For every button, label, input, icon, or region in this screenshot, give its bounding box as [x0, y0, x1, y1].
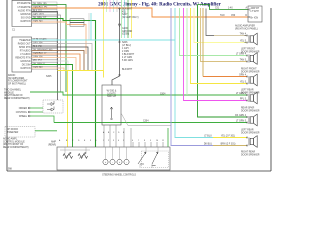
svg-text:DK GRN 4: DK GRN 4	[235, 115, 247, 117]
svg-text:WHEEL: WHEEL	[19, 116, 28, 118]
svg-text:LT REMOTE: LT REMOTE	[18, 7, 31, 9]
svg-text:BRN (2 F 301): BRN (2 F 301)	[221, 144, 236, 146]
svg-text:(RIGHT REAR OF: (RIGHT REAR OF	[4, 94, 23, 97]
svg-text:DIC DIM: DIC DIM	[22, 64, 31, 66]
svg-text:RT REMOTE: RT REMOTE	[17, 3, 31, 5]
svg-text:RH DOOR: RH DOOR	[7, 129, 18, 131]
svg-text:BLK/WHT: BLK/WHT	[122, 69, 133, 71]
svg-text:LEFT FRONT: LEFT FRONT	[241, 49, 256, 51]
svg-text:RADIO OUT: RADIO OUT	[18, 42, 31, 45]
svg-text:C50: C50	[231, 15, 236, 17]
svg-text:8: 8	[144, 140, 145, 142]
svg-text:PPL 5: PPL 5	[240, 99, 247, 101]
svg-text:LT BLU: LT BLU	[204, 136, 212, 138]
svg-text:(RIGHT FRONT OF: (RIGHT FRONT OF	[3, 144, 24, 146]
svg-text:GROUND: GROUND	[20, 61, 31, 63]
svg-text:DK BLU: DK BLU	[204, 144, 213, 146]
svg-text:AUDIO RTN: AUDIO RTN	[18, 9, 31, 12]
svg-text:6: 6	[132, 140, 133, 142]
svg-text:ORN 4: ORN 4	[239, 75, 247, 77]
svg-text:1: 1	[103, 140, 104, 142]
svg-text:IGNITION: IGNITION	[20, 21, 31, 23]
svg-text:4: 4	[118, 140, 119, 142]
svg-text:DOOR SPEAKER: DOOR SPEAKER	[241, 153, 260, 156]
svg-text:YEL 5: YEL 5	[240, 41, 247, 43]
svg-text:ORDER: ORDER	[19, 108, 28, 110]
svg-text:4 LT GRN: 4 LT GRN	[122, 57, 132, 59]
svg-text:GROUND: GROUND	[122, 31, 133, 33]
svg-text:S305: S305	[46, 76, 52, 78]
svg-text:(REAR): (REAR)	[48, 143, 56, 146]
svg-text:LT GRN 4: LT GRN 4	[236, 54, 247, 56]
svg-text:REAR SPKR: REAR SPKR	[241, 107, 255, 110]
svg-text:TAN 4: TAN 4	[240, 33, 247, 36]
svg-text:1-40: 1-40	[228, 7, 233, 9]
svg-text:AUDIO AMPL.: AUDIO AMPL.	[3, 138, 18, 141]
svg-text:2: 2	[108, 140, 109, 142]
svg-text:GROUND: GROUND	[20, 14, 31, 16]
svg-text:LT GRN 5: LT GRN 5	[236, 121, 247, 123]
svg-text:LEFT REAR: LEFT REAR	[241, 89, 254, 92]
svg-text:LEFT REAR: LEFT REAR	[241, 129, 254, 132]
svg-text:DOOR SPEAKER: DOOR SPEAKER	[241, 109, 260, 112]
svg-text:RT AUDIO: RT AUDIO	[20, 49, 31, 52]
svg-text:S304: S304	[160, 93, 166, 95]
svg-text:CONTROL MODULE: CONTROL MODULE	[3, 141, 25, 143]
svg-text:TWO CHANNEL: TWO CHANNEL	[4, 89, 22, 92]
svg-text:1 GRY: 1 GRY	[122, 48, 129, 50]
svg-text:DOOR SPEAKER: DOOR SPEAKER	[241, 131, 260, 134]
svg-text:W/ DIG &: W/ DIG &	[107, 91, 117, 93]
svg-text:G200: G200	[122, 28, 128, 30]
svg-text:10: 10	[156, 140, 158, 142]
svg-text:3 BLK/WHT: 3 BLK/WHT	[122, 54, 135, 56]
svg-text:TWEETER: TWEETER	[7, 132, 19, 134]
svg-text:5: 5	[123, 140, 124, 142]
svg-text:REMOTE RTN: REMOTE RTN	[15, 57, 30, 59]
svg-text:2 ORN: 2 ORN	[122, 51, 129, 53]
svg-text:TAN 5: TAN 5	[240, 59, 247, 62]
svg-text:7: 7	[138, 140, 139, 142]
svg-text:RIGHT FRONT: RIGHT FRONT	[241, 69, 257, 71]
svg-text:REAR COMPARTMENT): REAR COMPARTMENT)	[3, 146, 29, 149]
svg-text:RIGHT REAR: RIGHT REAR	[241, 151, 255, 154]
svg-text:AT LOWER RIGHT: AT LOWER RIGHT	[8, 80, 28, 83]
svg-text:LT WHT: LT WHT	[251, 11, 260, 13]
svg-text:OF INST PANEL): OF INST PANEL)	[8, 82, 26, 85]
svg-text:(LT BLU): (LT BLU)	[122, 45, 131, 47]
svg-text:5 DK GRN: 5 DK GRN	[122, 60, 133, 62]
svg-text:RADIO: RADIO	[8, 74, 15, 77]
svg-text:LIGHTS: LIGHTS	[107, 93, 116, 95]
svg-text:9: 9	[150, 140, 151, 142]
svg-text:IGNITION: IGNITION	[20, 68, 31, 70]
svg-text:S207: S207	[122, 14, 128, 16]
svg-text:B+ IGN: B+ IGN	[251, 17, 259, 19]
svg-text:SIG GND: SIG GND	[21, 17, 31, 19]
svg-text:AMP RT: AMP RT	[251, 7, 260, 10]
svg-text:DOOR SPEAKER: DOOR SPEAKER	[241, 70, 260, 73]
svg-text:BLK/WHT: BLK/WHT	[122, 9, 133, 11]
svg-text:S206: S206	[122, 42, 128, 44]
svg-text:CONTROL: CONTROL	[16, 112, 28, 114]
svg-text:TWEETER: TWEETER	[19, 40, 31, 42]
svg-text:STEERING WHEEL CONTROLS: STEERING WHEEL CONTROLS	[102, 175, 136, 177]
svg-text:MODULE: MODULE	[4, 92, 14, 94]
svg-text:TAN: TAN	[220, 14, 225, 17]
svg-text:AUDIO AMPLIFIER: AUDIO AMPLIFIER	[235, 25, 255, 28]
svg-text:11: 11	[162, 140, 164, 142]
svg-text:(RIGHT KICK PANEL): (RIGHT KICK PANEL)	[235, 27, 258, 30]
svg-text:REAR COMPARTMENT): REAR COMPARTMENT)	[4, 97, 30, 100]
svg-text:C51: C51	[215, 7, 220, 9]
svg-text:SPKR RTN: SPKR RTN	[19, 47, 31, 49]
svg-text:C304: C304	[143, 121, 149, 123]
svg-text:YEL (2 F 301): YEL (2 F 301)	[221, 136, 235, 138]
svg-text:AMP: AMP	[51, 141, 56, 144]
svg-text:3: 3	[113, 140, 114, 142]
svg-text:LT GRN 4: LT GRN 4	[236, 93, 247, 95]
svg-text:YEL 5: YEL 5	[240, 82, 247, 84]
svg-text:(W/ AMPLIFIER,: (W/ AMPLIFIER,	[8, 77, 25, 80]
svg-text:(W/ AMP ONLY): (W/ AMP ONLY)	[122, 16, 139, 19]
svg-text:(G200): (G200)	[122, 34, 129, 36]
svg-text:LT AUDIO: LT AUDIO	[20, 53, 30, 56]
svg-text:SWITCH: SWITCH	[107, 96, 116, 98]
